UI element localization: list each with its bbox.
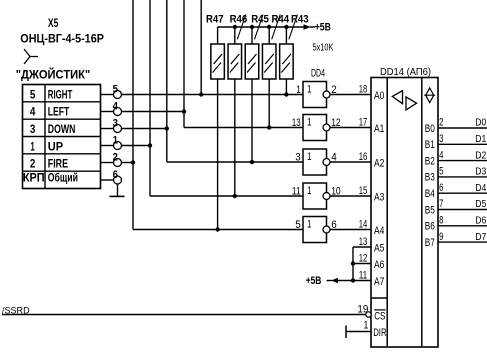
wire R46 bottom lead xyxy=(234,79,236,196)
wire vertical line to top (FIRE) xyxy=(132,0,134,230)
connector X5 plug symbol xyxy=(24,49,38,64)
junction R45 bottom xyxy=(250,160,254,164)
svg-text:4: 4 xyxy=(439,149,443,161)
table row divider xyxy=(23,170,101,172)
DIR stub terminator bar xyxy=(345,326,347,339)
wire vertical line to top (DOWN) xyxy=(166,0,168,162)
inverter DD4.3 output bubble xyxy=(323,159,330,166)
wire vertical line to top (UP) xyxy=(149,0,151,196)
svg-text:19: 19 xyxy=(357,304,368,316)
svg-text:+5В: +5В xyxy=(315,21,331,33)
wire R44 bottom lead xyxy=(268,79,270,128)
wire table to pin 6 xyxy=(101,179,114,181)
wire DD4.2 output to DD14 xyxy=(330,127,371,129)
pin contact 2 circle xyxy=(114,159,122,167)
svg-text:1: 1 xyxy=(296,84,301,96)
wire UP to gate DD4.4 input xyxy=(150,195,303,197)
svg-text:18: 18 xyxy=(359,83,368,95)
svg-text:+5В: +5В xyxy=(306,275,322,287)
wire data line D2 xyxy=(438,160,487,162)
leader line R45 xyxy=(255,15,264,40)
wire row RIGHT xyxy=(122,94,304,96)
resistor R46 xyxy=(228,44,242,79)
svg-text:D3: D3 xyxy=(475,167,486,178)
inverter DD4.4 output bubble xyxy=(323,193,330,200)
junction R44 on +5V bus xyxy=(267,25,271,29)
resistor R47 xyxy=(211,44,225,79)
IC DD14 right column divider xyxy=(421,78,423,348)
svg-text:D4: D4 xyxy=(475,183,486,194)
resistor R45 xyxy=(245,44,259,79)
wire row UP xyxy=(122,145,151,147)
svg-text:15: 15 xyxy=(359,185,368,197)
ground lead from pin 6 xyxy=(117,184,119,197)
svg-text:D2: D2 xyxy=(475,150,486,161)
wire R43 top lead xyxy=(285,27,287,44)
svg-text:13: 13 xyxy=(292,117,301,129)
junction R45 on +5V bus xyxy=(250,25,254,29)
svg-text:D0: D0 xyxy=(475,118,486,129)
inverter DD4.5 xyxy=(303,217,327,243)
svg-text:2: 2 xyxy=(113,152,118,164)
svg-text:D1: D1 xyxy=(475,134,486,145)
resistor R44 xyxy=(262,44,276,79)
svg-text:13: 13 xyxy=(359,236,368,248)
svg-text:D5: D5 xyxy=(475,199,486,210)
inverter DD4.2 xyxy=(303,115,327,141)
table row divider xyxy=(23,136,101,138)
svg-text:11: 11 xyxy=(359,269,368,281)
table row divider xyxy=(23,101,101,103)
svg-text:5x10K: 5x10K xyxy=(313,43,334,54)
wire R46 top lead xyxy=(234,27,236,44)
wire +5V bus over resistors xyxy=(218,26,304,28)
junction node RIGHT xyxy=(199,92,203,96)
wire table to pin 5 xyxy=(101,94,114,96)
svg-text:A7: A7 xyxy=(374,276,384,288)
wire DIR stub xyxy=(346,331,371,333)
svg-text:4: 4 xyxy=(113,101,119,113)
wire DD4.1 output to DD14 xyxy=(330,94,371,96)
svg-text:CS: CS xyxy=(374,311,385,323)
IC DD14 bidirectional symbol xyxy=(392,91,416,110)
svg-text:7: 7 xyxy=(439,198,443,210)
svg-text:1: 1 xyxy=(307,117,312,129)
svg-text:DIR: DIR xyxy=(373,327,386,339)
wire R43 bottom lead xyxy=(285,79,287,95)
wire /SSRD to CS xyxy=(2,314,366,316)
svg-text:UP: UP xyxy=(48,139,63,153)
svg-text:A3: A3 xyxy=(374,191,384,203)
wire table to pin 3 xyxy=(101,128,114,130)
svg-text:DD4: DD4 xyxy=(311,68,325,80)
wire data line D1 xyxy=(438,143,487,145)
IC DD14 control section divider xyxy=(371,297,387,299)
wire data line D5 xyxy=(438,209,487,211)
junction A7 xyxy=(351,278,355,282)
svg-text:RIGHT: RIGHT xyxy=(48,87,73,101)
svg-text:5: 5 xyxy=(113,84,118,96)
svg-text:17: 17 xyxy=(359,116,368,128)
inverter DD4.3 xyxy=(303,149,327,175)
wire DD4.4 output to DD14 xyxy=(330,195,371,197)
table column divider xyxy=(44,85,46,189)
table row divider xyxy=(23,118,101,120)
wire data line D7 xyxy=(438,241,487,243)
svg-text:B4: B4 xyxy=(425,188,435,200)
svg-text:6: 6 xyxy=(439,182,443,194)
IC DD14 body xyxy=(371,78,438,348)
svg-text:12: 12 xyxy=(359,252,368,264)
svg-text:1: 1 xyxy=(113,135,118,147)
svg-text:B1: B1 xyxy=(425,139,435,151)
svg-text:A5: A5 xyxy=(374,242,384,254)
inverter DD4.4 xyxy=(303,183,327,209)
wire DD4.5 output to DD14 xyxy=(330,229,371,231)
svg-text:3: 3 xyxy=(30,122,36,136)
connector X5 pin table xyxy=(23,85,101,189)
svg-text:B5: B5 xyxy=(425,204,435,216)
svg-text:Общий: Общий xyxy=(48,170,78,184)
wire data line D0 xyxy=(438,127,487,129)
junction A6 xyxy=(351,261,355,265)
junction node UP xyxy=(148,143,152,147)
svg-text:1: 1 xyxy=(307,151,312,163)
junction R44 bottom xyxy=(267,125,271,129)
svg-text:1: 1 xyxy=(307,185,312,197)
svg-text:ОНЦ-ВГ-4-5-16Р: ОНЦ-ВГ-4-5-16Р xyxy=(20,31,104,45)
power +5V arrow (top) xyxy=(304,24,312,30)
inverter DD4.5 output bubble xyxy=(323,226,330,233)
svg-text:A4: A4 xyxy=(374,225,384,237)
svg-text:B2: B2 xyxy=(425,155,435,167)
svg-text:A1: A1 xyxy=(374,123,384,135)
junction node FIRE xyxy=(131,160,135,164)
svg-text:B3: B3 xyxy=(425,172,435,184)
svg-text:8: 8 xyxy=(439,215,443,227)
svg-text:LEFT: LEFT xyxy=(48,105,70,119)
svg-text:A0: A0 xyxy=(374,90,384,102)
wire vertical line to top (RIGHT) xyxy=(200,0,202,95)
svg-text:B0: B0 xyxy=(425,123,435,135)
wire row DOWN xyxy=(122,128,167,130)
junction R47 bottom xyxy=(215,227,219,231)
wire table to pin 2 xyxy=(101,162,114,164)
svg-text:R47: R47 xyxy=(206,14,224,26)
svg-text:11: 11 xyxy=(292,185,301,197)
wire A5 pin 13 xyxy=(353,246,371,248)
leader line R44 xyxy=(272,15,281,40)
svg-text:КРП: КРП xyxy=(23,170,45,184)
svg-text:6: 6 xyxy=(113,169,118,181)
wire LEFT to gate DD4.2 input xyxy=(184,127,303,129)
wire R47 top lead xyxy=(217,27,219,44)
wire data line D6 xyxy=(438,225,487,227)
junction R46 bottom xyxy=(233,194,237,198)
svg-text:1: 1 xyxy=(364,319,369,331)
power +5V arrow (bottom) xyxy=(331,278,338,284)
svg-text:4: 4 xyxy=(30,105,36,119)
svg-text:B7: B7 xyxy=(425,237,435,249)
wire vertical line to top (LEFT) xyxy=(183,0,185,128)
wire R45 top lead xyxy=(251,27,253,44)
svg-text:16: 16 xyxy=(359,151,368,163)
svg-text:3: 3 xyxy=(295,151,301,163)
wire FIRE to gate DD4.5 input xyxy=(133,229,303,231)
pin contact 5 circle xyxy=(114,91,122,99)
pin contact 3 circle xyxy=(114,125,122,133)
junction R43 on +5V bus xyxy=(284,25,288,29)
inverter DD4.1 xyxy=(303,82,327,108)
pin contact 4 circle xyxy=(114,108,122,116)
svg-text:3: 3 xyxy=(113,118,118,130)
svg-text:2: 2 xyxy=(439,117,443,129)
junction node LEFT xyxy=(182,109,186,113)
junction node DOWN xyxy=(165,126,169,130)
svg-text:1: 1 xyxy=(31,139,35,153)
junction R43 bottom xyxy=(284,92,288,96)
svg-text:X5: X5 xyxy=(48,16,59,30)
inverter DD4.2 output bubble xyxy=(323,124,330,131)
wire DD4.3 output to DD14 xyxy=(330,161,371,163)
svg-text:DD14 (АП6): DD14 (АП6) xyxy=(380,67,431,78)
wire row LEFT xyxy=(122,111,185,113)
svg-text:A2: A2 xyxy=(374,157,384,169)
svg-text:14: 14 xyxy=(359,218,368,230)
wire R45 bottom lead xyxy=(251,79,253,162)
wire data line D3 xyxy=(438,176,487,178)
inverter DD4.1 output bubble xyxy=(323,91,330,98)
wire row FIRE xyxy=(122,162,134,164)
svg-text:2: 2 xyxy=(30,157,36,171)
svg-text:FIRE: FIRE xyxy=(48,157,68,171)
wire DOWN to gate DD4.3 input xyxy=(167,161,303,163)
table row divider xyxy=(23,153,101,155)
leader line R43 xyxy=(289,15,298,40)
resistor R43 xyxy=(280,44,294,79)
svg-text:5: 5 xyxy=(30,87,36,101)
svg-text:R44: R44 xyxy=(272,14,290,26)
svg-text:1: 1 xyxy=(307,219,312,231)
IC DD14 left column divider xyxy=(386,78,388,348)
svg-text:D7: D7 xyxy=(475,232,486,243)
svg-text:B6: B6 xyxy=(425,221,435,233)
svg-text:9: 9 xyxy=(439,231,443,243)
pin contact 1 circle xyxy=(114,142,122,150)
CS inversion bubble xyxy=(366,312,371,317)
wire R44 top lead xyxy=(268,27,270,44)
svg-text:5: 5 xyxy=(439,166,443,178)
wire R47 bottom lead xyxy=(217,79,219,230)
svg-text:D6: D6 xyxy=(475,216,486,227)
svg-text:3: 3 xyxy=(439,133,443,145)
wire +5V to A7 pin 11 xyxy=(338,280,372,282)
wire table to pin 4 xyxy=(101,111,114,113)
svg-text:DOWN: DOWN xyxy=(48,122,76,136)
svg-text:5: 5 xyxy=(295,219,301,231)
ground symbol xyxy=(110,195,125,197)
leader line R46 xyxy=(237,15,246,40)
pin contact 6 circle xyxy=(114,176,122,184)
svg-text:A6: A6 xyxy=(374,259,384,271)
wire A6 pin 12 xyxy=(353,263,371,265)
junction R46 on +5V bus xyxy=(233,25,237,29)
IC DD14 three-state symbol xyxy=(424,88,435,103)
wire data line D4 xyxy=(438,192,487,194)
wire table to pin 1 xyxy=(101,145,114,147)
svg-text:"ДЖОЙСТИК": "ДЖОЙСТИК" xyxy=(16,66,91,81)
svg-text:1: 1 xyxy=(307,84,312,96)
